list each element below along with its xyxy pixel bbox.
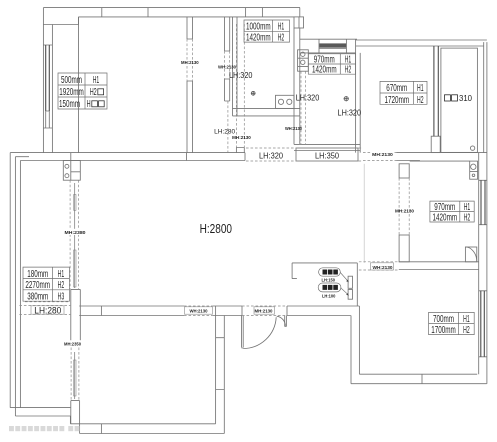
svg-text:1420mm: 1420mm	[312, 65, 337, 76]
svg-text:LH:280: LH:280	[34, 305, 61, 315]
table T7 room670 window	[380, 81, 427, 104]
svg-text:H2: H2	[463, 325, 470, 336]
table T5 bedroom3 window	[429, 312, 475, 334]
table T6 balcony window	[23, 267, 69, 301]
kitchen flue box	[294, 17, 304, 28]
entry door right stub	[285, 316, 287, 327]
svg-text:LH:350: LH:350	[315, 151, 339, 161]
corridor left edge line	[363, 164, 365, 263]
svg-text:1920mm: 1920mm	[59, 87, 84, 98]
svg-text:2270mm: 2270mm	[25, 280, 50, 291]
kitchen beam dashes	[228, 24, 244, 153]
svg-text:1720mm: 1720mm	[385, 95, 410, 106]
wall window room670/sunken	[434, 46, 438, 136]
table T4 bedroom2 window	[430, 201, 474, 222]
svg-text:LH:100: LH:100	[322, 293, 336, 299]
living bottom wall	[79, 306, 242, 316]
window W1 caps	[43, 45, 52, 128]
label box WH2130 corridor	[371, 263, 394, 270]
svg-text:MH:2130: MH:2130	[372, 152, 393, 158]
window W3 bedroom3	[481, 291, 485, 357]
leader line 2	[341, 288, 348, 295]
electric box callouts	[318, 268, 349, 300]
bedroom2 inner top line	[410, 160, 470, 162]
living bottom wall tick	[100, 306, 102, 316]
bathroom right wall	[356, 39, 361, 152]
balcony door2 leaf	[74, 352, 76, 399]
table T1 bedroom1 window	[58, 73, 107, 109]
svg-text:MH:2350: MH:2350	[64, 342, 81, 348]
svg-text:WH:2130: WH:2130	[285, 126, 302, 132]
svg-text:H2: H2	[417, 95, 424, 106]
balcony bottom	[10, 408, 70, 424]
bathroom top window ticks	[319, 39, 346, 53]
balcony door1 leaf	[74, 183, 76, 288]
balcony door1 dashes	[70, 180, 78, 289]
drain kitchen	[251, 91, 255, 95]
svg-text:1420mm: 1420mm	[433, 212, 458, 223]
stadium callout strong box	[319, 268, 341, 276]
svg-text:380mm: 380mm	[27, 292, 48, 303]
right outer wall	[484, 42, 487, 384]
sunken room inner box	[441, 48, 478, 152]
living top wall left part	[10, 153, 245, 161]
svg-text:WH:2130: WH:2130	[373, 265, 393, 271]
small door window height labels	[63, 60, 414, 348]
wall left inner of bedroom1	[51, 25, 53, 153]
wall top inner	[79, 16, 295, 18]
svg-text:H1: H1	[58, 269, 65, 280]
table texts	[25, 22, 470, 336]
window W3 caps	[479, 291, 487, 357]
entry opening dashes	[242, 306, 287, 316]
wall top-left step	[43, 17, 78, 25]
svg-text:670mm: 670mm	[386, 83, 407, 94]
label box LH280 balcony	[31, 306, 64, 314]
entry door small arc	[277, 316, 286, 326]
bottomleft room right wall	[216, 306, 225, 434]
bedroom2 bottom wall	[399, 262, 479, 270]
svg-text:H2: H2	[278, 33, 285, 44]
svg-text:H2: H2	[90, 87, 97, 98]
dark window lines	[46, 43, 485, 356]
sunken room drain circle	[470, 146, 474, 150]
svg-text:MH:2130: MH:2130	[395, 208, 414, 214]
svg-text:LH:320: LH:320	[338, 107, 362, 117]
svg-text:LH:320: LH:320	[229, 70, 253, 80]
svg-text:H1: H1	[93, 75, 100, 86]
room670 right wall end box	[431, 136, 440, 152]
corridor-bedroom3 opening dashes	[359, 262, 399, 270]
watermark	[9, 426, 80, 431]
dashed lines	[19, 24, 409, 401]
svg-text:310: 310	[459, 93, 472, 103]
electric box rects	[348, 276, 352, 288]
kitchen right wall	[294, 28, 300, 116]
bedroom2 inner right wall	[478, 153, 480, 375]
table T2 kitchen window	[244, 20, 290, 42]
label boxes	[31, 263, 394, 314]
svg-text:H2: H2	[345, 65, 352, 76]
label sunken310	[445, 93, 473, 103]
svg-text:MH:2130: MH:2130	[232, 135, 251, 141]
label MH2350 balcony door2	[63, 340, 83, 346]
svg-text:MH:2130: MH:2130	[181, 60, 199, 66]
svg-text:970mm: 970mm	[434, 202, 455, 213]
entry door leaf cap and jamb ticks	[242, 306, 288, 348]
bottomleft room bottom wall	[70, 424, 224, 434]
kitchen sink box	[276, 95, 295, 108]
svg-text:H2: H2	[58, 280, 65, 291]
svg-text:500mm: 500mm	[61, 75, 82, 86]
LH beam labels	[34, 70, 472, 315]
svg-text:H3: H3	[58, 292, 65, 303]
bedroom1 door dashes	[187, 39, 193, 81]
svg-text:H:2800: H:2800	[200, 221, 232, 236]
svg-text:H1: H1	[463, 314, 470, 325]
wall top outer	[43, 7, 300, 9]
label box MH2130 entry	[254, 307, 275, 314]
wall line x78.5	[78, 17, 80, 153]
entry door big arc	[243, 317, 276, 348]
bedroom2 right fixture box	[470, 161, 478, 179]
svg-text:MH:2380: MH:2380	[65, 230, 86, 236]
svg-text:1000mm: 1000mm	[246, 22, 271, 33]
bathroom door dashes	[301, 71, 306, 144]
bathroom pipe box	[298, 50, 309, 71]
living top wall right part	[397, 153, 487, 161]
svg-text:1700mm: 1700mm	[431, 325, 456, 336]
svg-text:150mm: 150mm	[59, 99, 80, 110]
hall door dashes	[225, 51, 230, 79]
left pipe fixture box	[63, 161, 80, 181]
table T3 bathroom window	[308, 54, 355, 74]
svg-text:LH:320: LH:320	[296, 92, 320, 102]
room670 top wall	[356, 40, 487, 46]
svg-text:180mm: 180mm	[27, 269, 48, 280]
bathroom top window	[319, 43, 346, 47]
kitchen bottom wall	[233, 108, 300, 116]
label MH2130 room670 door	[372, 152, 394, 158]
svg-text:H1: H1	[417, 83, 424, 94]
svg-text:LH:280: LH:280	[214, 128, 235, 135]
kitchen top ticks	[246, 8, 263, 17]
beam label box LH320-LH350	[296, 148, 358, 161]
svg-text:MH:2130: MH:2130	[255, 309, 273, 315]
window W2 caps	[479, 180, 487, 224]
svg-text:WH:2130: WH:2130	[218, 64, 236, 70]
LH280 beam dashes balcony	[19, 302, 70, 315]
svg-text:700mm: 700mm	[433, 314, 454, 325]
kitchen left wall	[233, 17, 238, 116]
wall chunk between balcony doors	[71, 289, 81, 343]
label MH2380 balcony door1	[64, 229, 87, 235]
stadium callout weak box	[318, 283, 341, 292]
living bottom opening dashes	[184, 306, 213, 316]
bedroom3 bottom wall	[351, 374, 487, 384]
bathroom lower door dashes	[294, 116, 300, 144]
svg-text:H1: H1	[464, 202, 471, 213]
kitchen door jamb bracket	[236, 148, 244, 153]
svg-text:H1: H1	[278, 22, 285, 33]
tables	[23, 20, 474, 335]
bathroom left wall lower	[294, 116, 300, 144]
niche wall	[292, 263, 357, 306]
drain symbols	[251, 91, 349, 101]
balcony door2 dashes	[71, 343, 79, 401]
hall right wall	[225, 17, 230, 101]
room670 door dashes	[363, 153, 397, 161]
svg-text:H: H	[87, 99, 91, 110]
leader line 1	[340, 273, 348, 282]
svg-text:1420mm: 1420mm	[246, 33, 271, 44]
drain bathroom	[344, 97, 348, 101]
balcony outer walls	[10, 153, 20, 416]
wall tick top	[102, 8, 148, 17]
bedroom2 door dashes	[399, 178, 409, 235]
svg-text:H2: H2	[464, 212, 471, 223]
bedroom2 left wall blocks	[399, 164, 409, 178]
bedroom1 right wall	[187, 17, 193, 153]
bathroom bottom wall	[294, 144, 360, 150]
beam band dashes below bathroom	[246, 148, 362, 161]
wall left outer of bedroom1	[42, 8, 44, 153]
window W1 bedroom1 left	[46, 45, 50, 111]
shower corner box	[465, 247, 476, 262]
entry door leaf	[242, 316, 244, 348]
svg-text:LH:320: LH:320	[259, 151, 283, 161]
balcony door2 bottom cap	[71, 401, 80, 434]
bedroom3 left wall	[351, 306, 359, 384]
bathroom top wall	[300, 39, 357, 53]
label box WH2130 living bottom	[185, 307, 213, 314]
window W2 bedroom2	[481, 180, 485, 224]
svg-text:WH:2130: WH:2130	[190, 309, 208, 315]
